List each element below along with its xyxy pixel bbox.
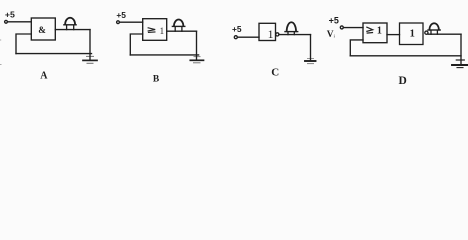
svg-text:+5: +5	[5, 10, 15, 20]
svg-text:1: 1	[160, 26, 165, 36]
svg-text:D: D	[399, 75, 407, 87]
svg-text:+5: +5	[329, 15, 339, 25]
svg-text:C: C	[271, 67, 279, 79]
svg-text:1: 1	[268, 27, 274, 41]
svg-text:A: A	[40, 71, 48, 82]
svg-text:+5: +5	[232, 24, 242, 34]
svg-text:1: 1	[377, 26, 382, 37]
svg-text:1: 1	[410, 29, 415, 40]
svg-text:B: B	[153, 74, 160, 84]
svg-text:&: &	[38, 25, 46, 35]
svg-text:+5: +5	[116, 10, 126, 20]
